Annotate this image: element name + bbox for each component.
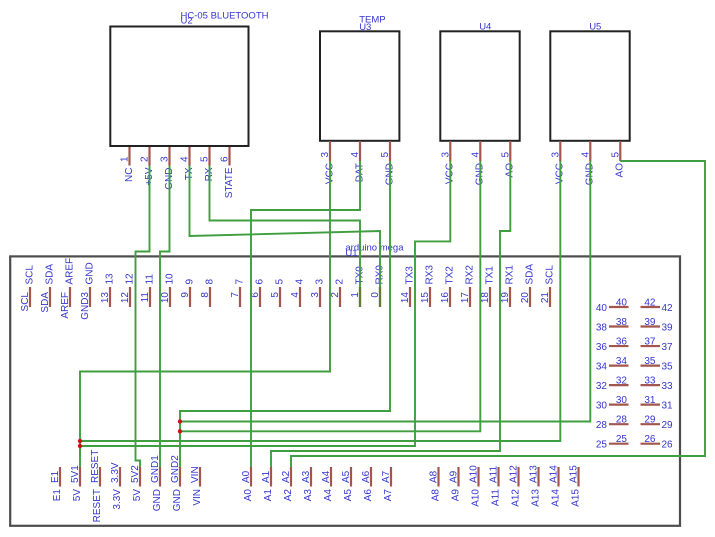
svg-text:TX1: TX1: [485, 266, 496, 285]
svg-text:40: 40: [596, 303, 608, 314]
svg-text:26: 26: [662, 440, 674, 451]
svg-text:A10: A10: [471, 489, 482, 507]
svg-text:12: 12: [120, 292, 131, 304]
svg-text:3: 3: [310, 292, 321, 298]
svg-text:RX1: RX1: [505, 265, 516, 285]
svg-text:A9: A9: [448, 470, 459, 483]
svg-text:3.3V: 3.3V: [112, 489, 123, 510]
svg-text:5V1: 5V1: [70, 465, 81, 483]
svg-text:16: 16: [440, 292, 451, 304]
svg-text:A11: A11: [491, 489, 502, 506]
svg-text:30: 30: [616, 395, 628, 406]
svg-text:A12: A12: [508, 465, 519, 483]
svg-text:21: 21: [540, 292, 551, 304]
svg-text:A7: A7: [381, 470, 392, 483]
svg-text:35: 35: [662, 362, 674, 373]
svg-text:A4: A4: [321, 470, 332, 483]
svg-text:20: 20: [520, 292, 531, 304]
svg-text:A7: A7: [383, 489, 394, 502]
svg-text:A5: A5: [343, 489, 354, 502]
svg-text:14: 14: [400, 292, 411, 304]
svg-text:SDA: SDA: [45, 264, 56, 285]
svg-text:8: 8: [205, 279, 216, 285]
svg-text:VIN: VIN: [192, 489, 203, 506]
svg-text:A13: A13: [531, 489, 542, 507]
svg-text:32: 32: [616, 376, 628, 387]
svg-text:34: 34: [616, 356, 628, 367]
svg-text:11: 11: [145, 274, 156, 285]
svg-text:A11: A11: [488, 466, 499, 483]
svg-text:26: 26: [644, 434, 656, 445]
svg-text:A8: A8: [428, 470, 439, 483]
svg-text:31: 31: [644, 395, 656, 406]
svg-text:7: 7: [230, 292, 241, 298]
svg-text:5: 5: [270, 292, 281, 298]
svg-text:28: 28: [596, 420, 608, 431]
svg-text:10: 10: [165, 273, 176, 285]
svg-text:13: 13: [100, 292, 111, 304]
svg-text:38: 38: [596, 323, 608, 334]
svg-text:E1: E1: [50, 470, 61, 483]
svg-text:SCL: SCL: [20, 292, 31, 312]
svg-text:3.3V: 3.3V: [110, 462, 121, 483]
svg-text:A5: A5: [341, 470, 352, 483]
svg-text:29: 29: [644, 415, 656, 426]
svg-text:39: 39: [644, 317, 656, 328]
svg-text:A3: A3: [301, 470, 312, 483]
svg-text:A14: A14: [548, 465, 559, 483]
svg-text:8: 8: [200, 292, 211, 298]
svg-text:9: 9: [185, 279, 196, 285]
svg-text:28: 28: [616, 415, 628, 426]
svg-text:25: 25: [596, 440, 608, 451]
svg-text:SDA: SDA: [40, 292, 51, 313]
svg-text:A2: A2: [283, 489, 294, 502]
svg-text:RESET: RESET: [90, 450, 101, 483]
svg-text:A6: A6: [361, 470, 372, 483]
svg-text:NC: NC: [124, 168, 135, 182]
svg-text:A9: A9: [451, 489, 462, 502]
svg-text:3: 3: [160, 156, 171, 162]
svg-text:A15: A15: [568, 465, 579, 483]
svg-text:A0: A0: [241, 470, 252, 483]
svg-text:39: 39: [662, 323, 674, 334]
svg-text:4: 4: [180, 156, 191, 162]
svg-text:15: 15: [420, 292, 431, 304]
svg-text:E1: E1: [52, 489, 63, 502]
svg-text:5: 5: [610, 152, 621, 158]
svg-text:37: 37: [644, 337, 656, 348]
svg-text:3: 3: [315, 279, 326, 285]
svg-text:A14: A14: [551, 489, 562, 507]
svg-text:7: 7: [235, 279, 246, 285]
svg-text:3: 3: [440, 152, 451, 158]
svg-text:30: 30: [596, 401, 608, 412]
svg-text:38: 38: [616, 317, 628, 328]
svg-text:31: 31: [662, 401, 674, 412]
svg-text:RX2: RX2: [465, 265, 476, 285]
svg-text:HC-05 BLUETOOTH: HC-05 BLUETOOTH: [181, 11, 269, 22]
svg-text:AREF: AREF: [65, 258, 76, 285]
svg-text:GND: GND: [172, 489, 183, 511]
svg-text:19: 19: [500, 292, 511, 304]
svg-text:TX3: TX3: [405, 266, 416, 285]
svg-text:A6: A6: [363, 489, 374, 502]
svg-text:37: 37: [662, 342, 674, 353]
svg-text:A8: A8: [431, 489, 442, 502]
svg-text:A0: A0: [243, 489, 254, 502]
svg-text:40: 40: [616, 298, 628, 309]
svg-text:GND: GND: [152, 489, 163, 511]
svg-text:U5: U5: [589, 22, 601, 33]
svg-text:AO: AO: [615, 163, 626, 178]
svg-text:5: 5: [200, 156, 211, 162]
svg-text:U1: U1: [345, 248, 357, 259]
svg-text:A2: A2: [281, 470, 292, 483]
svg-text:GND3: GND3: [80, 292, 91, 320]
svg-text:2: 2: [330, 292, 341, 298]
svg-text:33: 33: [662, 381, 674, 392]
svg-text:4: 4: [580, 152, 591, 158]
svg-text:4: 4: [470, 152, 481, 158]
svg-text:3: 3: [320, 152, 331, 158]
svg-text:10: 10: [160, 292, 171, 304]
svg-text:U2: U2: [181, 16, 193, 27]
svg-text:4: 4: [295, 279, 306, 285]
svg-text:42: 42: [662, 303, 674, 314]
svg-text:5V: 5V: [72, 489, 83, 502]
svg-text:29: 29: [662, 420, 674, 431]
svg-text:GND: GND: [85, 262, 96, 284]
svg-text:AREF: AREF: [60, 292, 71, 319]
svg-text:RX3: RX3: [425, 265, 436, 285]
svg-text:4: 4: [290, 292, 301, 298]
svg-text:12: 12: [125, 273, 136, 285]
svg-text:33: 33: [644, 376, 656, 387]
svg-text:3: 3: [550, 152, 561, 158]
svg-text:5: 5: [275, 279, 286, 285]
svg-text:9: 9: [180, 292, 191, 298]
svg-text:A12: A12: [511, 489, 522, 507]
svg-text:SCL: SCL: [545, 265, 556, 285]
svg-text:2: 2: [335, 279, 346, 285]
svg-text:5: 5: [380, 152, 391, 158]
svg-text:11: 11: [140, 292, 151, 303]
svg-text:A10: A10: [468, 465, 479, 483]
svg-text:5V2: 5V2: [130, 465, 141, 483]
svg-text:36: 36: [596, 342, 608, 353]
svg-text:5V: 5V: [132, 489, 143, 502]
svg-text:U3: U3: [359, 22, 371, 33]
svg-text:1: 1: [120, 156, 131, 162]
svg-text:A1: A1: [261, 470, 272, 483]
svg-text:SDA: SDA: [525, 264, 536, 285]
svg-text:4: 4: [350, 152, 361, 158]
svg-text:A3: A3: [303, 489, 314, 502]
svg-text:36: 36: [616, 337, 628, 348]
svg-text:TX2: TX2: [445, 266, 456, 285]
svg-text:U4: U4: [479, 22, 491, 33]
svg-text:RESET: RESET: [92, 489, 103, 522]
svg-text:32: 32: [596, 381, 608, 392]
svg-text:STATE: STATE: [224, 167, 235, 198]
svg-text:VIN: VIN: [190, 466, 201, 483]
svg-text:25: 25: [616, 434, 628, 445]
svg-text:13: 13: [105, 273, 116, 285]
svg-text:6: 6: [220, 156, 231, 162]
svg-text:A13: A13: [528, 465, 539, 483]
svg-text:18: 18: [480, 292, 491, 304]
svg-text:5: 5: [500, 152, 511, 158]
svg-text:6: 6: [255, 279, 266, 285]
svg-text:2: 2: [140, 156, 151, 162]
svg-text:34: 34: [596, 362, 608, 373]
svg-text:17: 17: [460, 292, 471, 304]
svg-text:A15: A15: [571, 489, 582, 507]
svg-text:SCL: SCL: [25, 265, 36, 285]
svg-text:A1: A1: [263, 489, 274, 502]
svg-text:42: 42: [644, 298, 656, 309]
svg-text:35: 35: [644, 356, 656, 367]
svg-text:A4: A4: [323, 489, 334, 502]
